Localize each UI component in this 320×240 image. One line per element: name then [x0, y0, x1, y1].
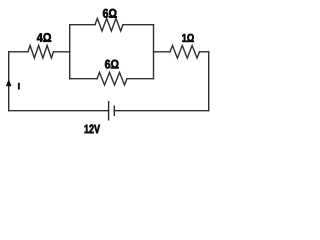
label 12V for battery: [85, 125, 100, 134]
label 6-ohm for R2: [103, 9, 117, 18]
wire: R1 to parallel box node: [54, 51, 70, 53]
wire: parallel box right vertical: [153, 25, 155, 79]
resistor R2 6-ohm (top branch) zigzag: [95, 18, 123, 31]
wire: R4 to top-right corner: [200, 51, 209, 53]
battery B1 short plate: [113, 106, 115, 117]
resistor R4 1-ohm zigzag: [170, 46, 200, 59]
label 1-ohm for R4: [182, 34, 193, 42]
resistor R1 4-ohm zigzag: [28, 46, 54, 59]
wire: bottom branch right segment: [127, 78, 154, 80]
battery B1 long plate: [108, 101, 110, 121]
wire: top-left horizontal to R1: [9, 51, 28, 53]
label 6-ohm for R3: [105, 60, 119, 69]
wire: bottom horizontal, left corner to battery: [9, 110, 109, 112]
wire: left vertical branch: [8, 52, 10, 111]
resistor R3 6-ohm (bottom branch) zigzag: [97, 72, 127, 85]
wire: box output node to R4: [154, 51, 171, 53]
wire: bottom horizontal, battery to right corner: [114, 110, 208, 112]
current direction arrow I (points up): [6, 79, 12, 86]
wire: top branch right segment: [123, 24, 154, 26]
wire: top branch left segment: [70, 24, 95, 26]
label I: [18, 83, 20, 90]
wire: parallel box left vertical: [69, 25, 71, 79]
wire: bottom branch left segment: [70, 78, 97, 80]
label 4-ohm for R1: [37, 33, 51, 42]
wire: right vertical branch: [208, 52, 210, 111]
